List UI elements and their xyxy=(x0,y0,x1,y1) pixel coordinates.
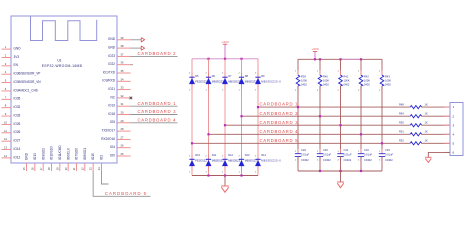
junction net tap R41 xyxy=(339,124,341,126)
wire R41 top xyxy=(340,59,342,75)
C31 pin stubs xyxy=(340,149,342,161)
svg-text:2: 2 xyxy=(317,160,319,162)
svg-text:CARDBOARD 2: CARDBOARD 2 xyxy=(260,111,299,116)
wire R41 to net xyxy=(340,86,342,154)
svg-text:IO19: IO19 xyxy=(108,104,115,108)
svg-text:1: 1 xyxy=(5,45,7,49)
U1 pin 31 wire xyxy=(117,105,131,107)
U1 pin 36 wire xyxy=(117,64,131,66)
svg-text:1: 1 xyxy=(222,90,224,92)
svg-text:36: 36 xyxy=(121,61,124,65)
svg-text:MBSD5Z2: MBSD5Z2 xyxy=(228,79,241,83)
wire C32 bottom xyxy=(360,156,362,171)
wire net CARDBOARD 4 (horizontal run) xyxy=(209,133,451,135)
power +3V3 (diode array) xyxy=(221,40,228,59)
svg-text:IO7/SD0: IO7/SD0 xyxy=(75,148,79,160)
svg-text:IO26: IO26 xyxy=(14,130,21,134)
svg-text:39: 39 xyxy=(121,36,124,40)
svg-text:1: 1 xyxy=(337,71,339,73)
svg-text:R52: R52 xyxy=(399,139,404,143)
junction net tap R43 xyxy=(381,142,383,144)
svg-text:1: 1 xyxy=(205,172,207,174)
off-sheet port arrow pin 39 xyxy=(141,38,144,42)
D5 pin stubs xyxy=(191,72,193,90)
svg-text:IO23: IO23 xyxy=(108,54,115,58)
svg-text:13: 13 xyxy=(4,146,7,150)
svg-text:EN: EN xyxy=(14,63,19,67)
svg-text:1: 1 xyxy=(379,151,381,153)
svg-text:R42: R42 xyxy=(364,74,369,78)
D10 pin numbers xyxy=(189,156,191,174)
svg-text:2: 2 xyxy=(189,156,191,158)
svg-text:IO8/SD1: IO8/SD1 xyxy=(83,148,87,160)
D11 pin stubs xyxy=(208,154,210,171)
svg-text:38: 38 xyxy=(121,44,124,48)
svg-text:CARDBOARD 1: CARDBOARD 1 xyxy=(138,101,177,106)
svg-text:MBSD5Z2: MBSD5Z2 xyxy=(228,159,241,163)
U1 pin 11 wire xyxy=(2,132,12,134)
svg-text:R50: R50 xyxy=(399,121,404,125)
svg-text:1K: 1K xyxy=(425,112,428,116)
wire C31 bottom xyxy=(340,156,342,171)
junction CARDBOARD 1 at channel vertical xyxy=(257,106,259,108)
diode D12 xyxy=(222,159,228,166)
D7 pin numbers xyxy=(222,73,224,92)
svg-text:100K: 100K xyxy=(344,78,350,82)
svg-text:1: 1 xyxy=(189,172,191,174)
U1 pin 18 wire xyxy=(50,163,52,171)
D9 pin numbers xyxy=(255,73,257,92)
ground (connector) xyxy=(425,157,431,162)
U1 pin 10 wire xyxy=(2,123,12,125)
U1 pin 2 wire xyxy=(2,56,12,58)
D8 pin stubs xyxy=(241,72,243,90)
svg-text:2: 2 xyxy=(238,73,240,75)
U1 pin 34 wire xyxy=(117,80,131,82)
wire CARDBOARD 1 from U1 pin 31 xyxy=(131,105,178,107)
U1 pin 17 wire xyxy=(42,163,44,171)
wire CARDBOARD 3 from U1 pin 30 xyxy=(131,114,178,116)
svg-text:0.01uF: 0.01uF xyxy=(323,153,331,157)
svg-text:IO12: IO12 xyxy=(14,155,21,159)
svg-text:7: 7 xyxy=(5,95,7,99)
diode D6 xyxy=(206,77,212,84)
junction +3V3 rail x=241.5 xyxy=(240,58,242,60)
wire channel vertical 5 xyxy=(257,59,259,176)
svg-text:2: 2 xyxy=(255,73,257,75)
U1 pin 8 wire xyxy=(2,107,12,109)
svg-text:R40: R40 xyxy=(323,74,328,78)
wire C29 bottom xyxy=(297,156,299,171)
svg-text:D8: D8 xyxy=(245,74,249,78)
wire channel vertical 4 xyxy=(241,59,243,176)
junction CARDBOARD 2 at channel vertical xyxy=(240,115,242,117)
svg-text:32: 32 xyxy=(121,94,124,98)
wire from U1 pin 38 xyxy=(131,47,142,49)
wire from U1 pin 39 xyxy=(131,39,142,41)
svg-text:17: 17 xyxy=(39,167,43,170)
D13 pin stubs xyxy=(241,154,243,171)
svg-text:CARDBOARD 2: CARDBOARD 2 xyxy=(138,51,177,56)
svg-text:28: 28 xyxy=(121,127,124,131)
junction net tap R42 xyxy=(360,133,362,135)
wire CARDBOARD 5 from U1 pin 23 xyxy=(93,171,150,196)
junction pull-up rail x=361 xyxy=(360,58,362,60)
U1 pin 16 wire xyxy=(34,163,36,171)
svg-text:IO34/ADC1_CH6: IO34/ADC1_CH6 xyxy=(14,88,38,92)
wire stub from U1 pin 24 xyxy=(101,171,108,184)
svg-text:3V3: 3V3 xyxy=(14,55,20,59)
svg-text:IO5: IO5 xyxy=(110,120,115,124)
wire R39 to net xyxy=(297,86,299,154)
svg-text:11: 11 xyxy=(4,129,7,133)
D14 pin numbers xyxy=(255,156,257,174)
D12 pin numbers xyxy=(222,156,224,174)
svg-text:20: 20 xyxy=(64,167,68,170)
diode D5 xyxy=(189,77,195,84)
svg-text:D7: D7 xyxy=(228,74,232,78)
wire GND stem (diode array) xyxy=(224,176,226,186)
wire R40 top xyxy=(319,59,321,75)
wire GND stem (caps) xyxy=(340,171,342,182)
U1 pin 35 wire xyxy=(117,72,131,74)
J1 pin 5 stub xyxy=(445,142,451,144)
svg-text:D14: D14 xyxy=(261,153,266,157)
svg-text:15: 15 xyxy=(22,167,26,170)
resistor R49 xyxy=(410,115,421,118)
U1 pin 24 wire xyxy=(100,163,102,171)
svg-text:30: 30 xyxy=(121,111,124,115)
svg-text:CARDBOARD 5: CARDBOARD 5 xyxy=(260,138,299,143)
svg-text:C31: C31 xyxy=(344,148,349,152)
svg-text:MBSD5Z2: MBSD5Z2 xyxy=(212,159,225,163)
svg-text:IO3/RXD: IO3/RXD xyxy=(102,79,115,83)
svg-text:25: 25 xyxy=(121,152,124,156)
U1 pin 37 wire xyxy=(117,55,131,57)
svg-text:1: 1 xyxy=(317,71,319,73)
resistor R41 xyxy=(339,75,343,86)
capacitor C31 xyxy=(337,154,343,157)
svg-text:PESD5Z2: PESD5Z2 xyxy=(195,159,207,163)
svg-text:C29: C29 xyxy=(301,148,306,152)
svg-text:D13: D13 xyxy=(245,153,250,157)
U1 pin 12 wire xyxy=(2,140,12,142)
wire R43 to net xyxy=(381,86,383,154)
diode D14 xyxy=(255,159,261,166)
svg-text:NC: NC xyxy=(110,95,115,99)
IC U1 ESP32-WROOM-16MB body xyxy=(11,16,117,163)
C30 pin numbers xyxy=(317,151,319,161)
svg-text:RX2/IO16: RX2/IO16 xyxy=(101,137,115,141)
U1 pin 7 wire xyxy=(2,98,12,100)
svg-text:IO11/CMD: IO11/CMD xyxy=(58,145,62,160)
U1 pin 28 wire xyxy=(117,130,131,132)
U1 pin 15 wire xyxy=(26,163,28,171)
svg-text:MBSD5Z2: MBSD5Z2 xyxy=(245,79,258,83)
D14 pin stubs xyxy=(257,154,259,171)
svg-text:8: 8 xyxy=(5,104,7,108)
svg-text:IO25: IO25 xyxy=(14,122,21,126)
svg-text:C30: C30 xyxy=(323,148,328,152)
wire net CARDBOARD 3 (horizontal run) xyxy=(225,124,450,126)
U1 pin 21 wire xyxy=(75,163,77,171)
svg-text:4: 4 xyxy=(5,70,7,74)
wire +3V3 rail (diode array) xyxy=(192,58,258,60)
svg-text:1: 1 xyxy=(358,151,360,153)
svg-text:12: 12 xyxy=(4,137,7,141)
U1 pin 14 wire xyxy=(2,157,12,159)
svg-text:IO13: IO13 xyxy=(33,153,37,160)
D11 pin numbers xyxy=(205,156,207,174)
svg-text:1K: 1K xyxy=(425,121,428,125)
J1 pin 4 stub xyxy=(445,133,451,135)
junction +3V3 rail x=208.5 xyxy=(207,58,209,60)
svg-text:33: 33 xyxy=(121,86,124,90)
svg-text:C0402: C0402 xyxy=(301,158,309,162)
svg-text:1: 1 xyxy=(205,90,207,92)
svg-text:5: 5 xyxy=(5,79,7,83)
C30 pin stubs xyxy=(319,149,321,161)
resistor R43 xyxy=(380,75,384,86)
diode D10 xyxy=(189,159,195,166)
resistor R52 xyxy=(410,142,421,145)
wire +3V3 rail pink segment xyxy=(341,58,362,60)
svg-text:R49: R49 xyxy=(399,112,404,116)
wire CARDBOARD 4 from U1 pin 29 xyxy=(131,122,178,124)
svg-text:2: 2 xyxy=(295,160,297,162)
diode D7 xyxy=(222,77,228,84)
svg-text:26: 26 xyxy=(121,144,124,148)
resistor R40 xyxy=(318,75,322,86)
junction CARDBOARD 4 at channel vertical xyxy=(207,133,209,135)
junction GND rail x=241.5 xyxy=(240,174,242,176)
svg-text:TX2/IO17: TX2/IO17 xyxy=(102,129,116,133)
D6 pin numbers xyxy=(205,73,207,92)
svg-text:1: 1 xyxy=(295,71,297,73)
svg-text:IO9/SD2: IO9/SD2 xyxy=(41,148,45,160)
svg-text:1: 1 xyxy=(337,151,339,153)
svg-text:2: 2 xyxy=(255,156,257,158)
U1 pin 23 wire xyxy=(92,163,94,171)
svg-text:GND: GND xyxy=(14,47,22,51)
junction +3V3 stem xyxy=(314,58,316,60)
capacitor C29 xyxy=(295,154,301,157)
U1 pin 9 wire xyxy=(2,115,12,117)
C31 pin numbers xyxy=(337,151,339,161)
svg-text:2: 2 xyxy=(189,73,191,75)
svg-text:R51: R51 xyxy=(399,130,404,134)
svg-text:1: 1 xyxy=(238,172,240,174)
svg-text:D12: D12 xyxy=(228,153,233,157)
svg-text:0.01uF: 0.01uF xyxy=(344,153,352,157)
U1 pin 19 wire xyxy=(59,163,61,171)
capacitor C33 xyxy=(379,154,385,157)
R43 pin stubs xyxy=(381,70,383,91)
wire GND rail (caps) xyxy=(298,170,382,172)
resistor R48 xyxy=(410,106,421,109)
U1 pin 5 wire xyxy=(2,82,12,84)
wire channel vertical 2 xyxy=(208,59,210,176)
svg-text:0402: 0402 xyxy=(364,83,370,87)
svg-text:2: 2 xyxy=(238,156,240,158)
diode D9 xyxy=(255,77,261,84)
C32 pin numbers xyxy=(358,151,360,161)
R42 pin stubs xyxy=(360,70,362,91)
junction net tap R40 xyxy=(319,115,321,117)
svg-text:IO4: IO4 xyxy=(110,145,115,149)
svg-text:R43: R43 xyxy=(385,74,390,78)
svg-text:R39: R39 xyxy=(301,74,306,78)
U1 pin 39 wire xyxy=(117,39,131,41)
svg-text:D10: D10 xyxy=(195,153,200,157)
svg-text:CARDBOARD 5: CARDBOARD 5 xyxy=(105,191,147,196)
svg-text:U1: U1 xyxy=(57,59,61,63)
R39 pin numbers xyxy=(295,71,297,93)
J1 pin 2 stub xyxy=(445,115,451,117)
svg-text:MBSD5Z2: MBSD5Z2 xyxy=(245,159,258,163)
svg-text:19: 19 xyxy=(55,167,59,170)
D10 pin stubs xyxy=(191,154,193,171)
svg-text:GND: GND xyxy=(108,46,116,50)
R40 pin numbers xyxy=(317,71,319,93)
svg-text:D5: D5 xyxy=(195,74,199,78)
wire +3V3 rail (pull-ups) xyxy=(298,58,382,60)
svg-text:1: 1 xyxy=(358,71,360,73)
U1 pin 33 wire xyxy=(117,89,131,91)
svg-text:IO36/SENSOR_VP: IO36/SENSOR_VP xyxy=(14,72,41,76)
svg-text:1K: 1K xyxy=(425,103,428,107)
svg-text:2: 2 xyxy=(205,73,207,75)
R39 pin stubs xyxy=(297,70,299,91)
U1 antenna meander xyxy=(31,16,97,40)
svg-text:2: 2 xyxy=(337,90,339,92)
svg-text:2: 2 xyxy=(205,156,207,158)
resistor R42 xyxy=(359,75,363,86)
C29 pin stubs xyxy=(297,149,299,161)
svg-text:100K: 100K xyxy=(301,78,307,82)
svg-text:100K: 100K xyxy=(364,78,370,82)
off-sheet port arrow pin 38 xyxy=(141,46,144,50)
capacitor C32 xyxy=(358,154,364,157)
svg-text:MBSD5Z25-0: MBSD5Z25-0 xyxy=(261,159,281,163)
svg-text:100K: 100K xyxy=(385,78,391,82)
junction GND rail x=208.5 xyxy=(207,174,209,176)
U1 pin 1 wire xyxy=(2,48,12,50)
svg-text:0402: 0402 xyxy=(301,83,307,87)
wire R39 top xyxy=(297,59,299,75)
C33 pin stubs xyxy=(381,149,383,161)
diode D8 xyxy=(239,77,245,84)
svg-text:23: 23 xyxy=(89,167,93,170)
D8 pin numbers xyxy=(238,73,240,92)
svg-text:MBSD5Z25-0: MBSD5Z25-0 xyxy=(261,79,281,83)
svg-text:D6: D6 xyxy=(212,74,216,78)
junction cap GND rail x=340.5 xyxy=(339,170,341,172)
wire R42 to net xyxy=(360,86,362,154)
connector J1 body xyxy=(450,103,463,156)
svg-text:GND: GND xyxy=(25,152,29,160)
svg-text:29: 29 xyxy=(121,119,124,123)
svg-text:22: 22 xyxy=(80,167,84,170)
D9 pin stubs xyxy=(257,72,259,90)
svg-text:1: 1 xyxy=(255,90,257,92)
svg-text:1: 1 xyxy=(189,90,191,92)
wire net CARDBOARD 2 (horizontal run) xyxy=(242,115,451,117)
svg-text:PESD5Z2: PESD5Z2 xyxy=(195,79,207,83)
U1 pin 6 wire xyxy=(2,90,12,92)
svg-text:34: 34 xyxy=(121,77,124,81)
svg-text:C32: C32 xyxy=(364,148,369,152)
U1 pin 22 wire xyxy=(84,163,86,171)
svg-text:1: 1 xyxy=(379,71,381,73)
wire net CARDBOARD 5 (horizontal run) xyxy=(192,142,450,144)
svg-text:24: 24 xyxy=(97,167,101,170)
D5 pin numbers xyxy=(189,73,191,92)
svg-text:2: 2 xyxy=(222,73,224,75)
svg-text:2: 2 xyxy=(295,90,297,92)
svg-text:14: 14 xyxy=(4,154,7,158)
svg-text:IO33: IO33 xyxy=(14,113,21,117)
svg-text:1: 1 xyxy=(222,172,224,174)
svg-text:IO35: IO35 xyxy=(14,97,21,101)
svg-text:IO18: IO18 xyxy=(108,112,115,116)
no-connect marker pin 32 xyxy=(130,97,133,100)
C29 pin numbers xyxy=(295,151,297,161)
svg-text:CARDBOARD 4: CARDBOARD 4 xyxy=(260,129,299,134)
svg-text:37: 37 xyxy=(121,52,124,56)
U1 pin 38 wire xyxy=(117,47,131,49)
R42 pin numbers xyxy=(358,71,360,93)
svg-text:2: 2 xyxy=(379,90,381,92)
junction cap GND rail x=361 xyxy=(360,170,362,172)
junction GND rail x=225 xyxy=(224,174,226,176)
svg-text:C33: C33 xyxy=(385,148,390,152)
svg-text:GND: GND xyxy=(108,37,116,41)
capacitor C30 xyxy=(317,154,323,157)
wire from U1 pin 36 xyxy=(131,64,134,66)
U1 pin 27 wire xyxy=(117,138,131,140)
D12 pin stubs xyxy=(224,154,226,171)
svg-text:1K: 1K xyxy=(425,130,428,134)
junction +3V3 rail x=225 xyxy=(224,58,226,60)
R40 pin stubs xyxy=(319,70,321,91)
svg-text:IO2: IO2 xyxy=(100,155,104,160)
svg-text:+3V3: +3V3 xyxy=(311,47,318,51)
diode D11 xyxy=(206,159,212,166)
junction pull-up rail x=340.5 xyxy=(339,58,341,60)
U1 pin 26 wire xyxy=(117,147,131,149)
svg-text:C0402: C0402 xyxy=(385,158,393,162)
svg-text:IO39/SENSOR_VN: IO39/SENSOR_VN xyxy=(14,80,42,84)
wire R40 to net xyxy=(319,86,321,154)
svg-text:ESP32-WROOM-16MB: ESP32-WROOM-16MB xyxy=(42,64,83,68)
U1 pin 30 wire xyxy=(117,114,131,116)
J1 pin 1 stub xyxy=(445,106,451,108)
svg-text:1: 1 xyxy=(295,151,297,153)
svg-text:0402: 0402 xyxy=(385,83,391,87)
U1 pin 25 wire xyxy=(117,155,131,157)
wire net CARDBOARD 1 (horizontal run) xyxy=(258,106,450,108)
svg-text:16: 16 xyxy=(30,167,34,170)
svg-text:2: 2 xyxy=(358,160,360,162)
svg-text:IO10/SD3: IO10/SD3 xyxy=(50,146,54,160)
svg-text:1: 1 xyxy=(238,90,240,92)
wire R43 top xyxy=(381,59,383,75)
svg-text:IO6/CLK: IO6/CLK xyxy=(66,147,70,160)
U1 pin 3 wire xyxy=(2,65,12,67)
svg-text:2: 2 xyxy=(5,53,7,57)
wire GND rail (diode array) xyxy=(192,175,258,177)
